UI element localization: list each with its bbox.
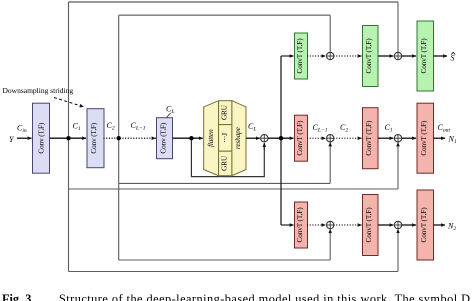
adder bot2 bbox=[394, 221, 401, 228]
conv block E2 bbox=[87, 109, 104, 168]
node after adder bbox=[279, 136, 283, 140]
adder bot1 bbox=[327, 221, 334, 228]
wire mid adder2 to P3 bbox=[402, 137, 416, 139]
svg-text:S: S bbox=[451, 54, 455, 63]
svg-text:ConvT (T,F): ConvT (T,F) bbox=[420, 120, 428, 156]
convT block G1 bbox=[295, 33, 308, 79]
convT block B1 bbox=[295, 202, 308, 248]
wire skip C1 vertical bbox=[68, 2, 70, 272]
wire GRU residual arrow bbox=[263, 143, 265, 150]
wire bot adder1 to B2 dotted bbox=[334, 224, 362, 226]
wire skip C1 top horizontal bbox=[69, 1, 399, 3]
GRU block cell dots bbox=[219, 125, 232, 152]
conv block E1 bbox=[33, 103, 50, 173]
adder top2 bbox=[394, 52, 401, 59]
convT block P1 bbox=[295, 115, 308, 161]
wire into bottom decoder block1 bbox=[281, 224, 294, 226]
wire input Y arrow bbox=[17, 137, 32, 139]
svg-text:Downsampling striding: Downsampling striding bbox=[3, 86, 74, 95]
svg-text:ConvT (T,F): ConvT (T,F) bbox=[296, 207, 304, 243]
tick from CL label to E3 bbox=[167, 113, 171, 118]
conv block E3 bbox=[157, 118, 173, 159]
wire skip C2 top horizontal bbox=[119, 14, 331, 16]
adder top1 bbox=[327, 52, 334, 59]
wire skip C1 bottom horizontal bbox=[69, 271, 399, 273]
svg-text:reshape: reshape bbox=[234, 126, 242, 149]
svg-text:ConvT (T,F): ConvT (T,F) bbox=[365, 207, 373, 243]
svg-text:ConvT (T,F): ConvT (T,F) bbox=[296, 120, 304, 156]
node C1 bbox=[66, 136, 70, 140]
wire skip C1 to top adder bbox=[397, 2, 399, 52]
wire mid adder1 to P2 dotted bbox=[334, 137, 362, 139]
wire skip C2 to top adder bbox=[329, 15, 331, 52]
svg-text:ConvT (T,F): ConvT (T,F) bbox=[296, 38, 304, 74]
svg-text:ConvT (T,F): ConvT (T,F) bbox=[365, 38, 373, 74]
wire skip C2 mid horizontal bbox=[119, 182, 331, 184]
wire P2 to mid adder2 bbox=[378, 137, 393, 139]
wire skip C1 bottom riser bbox=[397, 229, 399, 271]
svg-text:GRU: GRU bbox=[221, 104, 229, 120]
wire GRU to adder bbox=[246, 137, 260, 139]
GRU block reshape trapezoid bbox=[232, 101, 246, 176]
GRU block flatten trapezoid bbox=[204, 101, 219, 176]
wire branch vertical after GRU adder bbox=[280, 56, 282, 225]
svg-text:Conv (T,F): Conv (T,F) bbox=[38, 122, 46, 154]
adder after GRU bbox=[261, 135, 268, 142]
svg-text:Structure of the deep-learning: Structure of the deep-learning-based mod… bbox=[59, 292, 470, 301]
convT block B2 bbox=[363, 195, 379, 256]
wire G1 to top adder1 dotted bbox=[308, 55, 326, 57]
wire output N2 bbox=[434, 224, 446, 226]
svg-text:Conv (T,F): Conv (T,F) bbox=[90, 122, 98, 154]
convT block P3 bbox=[417, 103, 434, 173]
svg-text:ConvT (T,F): ConvT (T,F) bbox=[365, 120, 373, 156]
wire bot adder2 to B3 bbox=[402, 224, 416, 226]
wire skip C1 mid riser bbox=[397, 143, 399, 190]
wire output S bbox=[434, 55, 448, 57]
wire G2 to top adder2 bbox=[378, 55, 393, 57]
wire skip C1 mid horizontal bbox=[69, 188, 399, 190]
wire B1 to bot adder1 dotted bbox=[308, 224, 326, 226]
adder mid2 bbox=[394, 135, 401, 142]
adder mid1 bbox=[327, 135, 334, 142]
convT block P2 bbox=[363, 108, 379, 169]
svg-text:⋯J: ⋯J bbox=[221, 133, 229, 143]
node C2 bbox=[117, 136, 121, 140]
svg-text:flatten: flatten bbox=[207, 129, 215, 147]
wire E3 to GRU bbox=[173, 137, 203, 139]
wire into top decoder block1 bbox=[281, 55, 294, 57]
wire B2 to bot adder2 bbox=[378, 224, 393, 226]
wire top adder1 to G2 dotted bbox=[334, 55, 362, 57]
wire GRU residual bbox=[191, 138, 264, 176]
svg-text:Conv (T,F): Conv (T,F) bbox=[160, 122, 168, 154]
wire E2 to E3 dotted bbox=[104, 137, 156, 139]
node CL bbox=[189, 136, 193, 140]
wire adder to P1 bbox=[268, 137, 294, 139]
GRU block cell GRU bottom bbox=[219, 151, 232, 176]
convT block B3 bbox=[417, 190, 434, 260]
wire E1 to E2 bbox=[50, 137, 87, 139]
wire skip C2 mid riser bbox=[329, 143, 331, 184]
svg-text:GRU: GRU bbox=[221, 155, 229, 171]
convT block G3 bbox=[417, 21, 434, 91]
convT block G2 bbox=[363, 26, 379, 87]
dashed pointer arrow bbox=[54, 98, 84, 107]
GRU block cell GRU top bbox=[219, 101, 232, 125]
wire skip C2 bottom riser bbox=[329, 229, 331, 260]
wire skip C2 bottom horizontal bbox=[119, 259, 331, 261]
wire top adder2 to G3 bbox=[402, 55, 416, 57]
svg-text:ConvT (T,F): ConvT (T,F) bbox=[420, 38, 428, 74]
wire skip C2 vertical bbox=[118, 15, 120, 260]
wire output N1 bbox=[434, 137, 446, 139]
wire P1 to mid adder1 dotted bbox=[308, 137, 326, 139]
svg-text:Fig. 3.: Fig. 3. bbox=[2, 292, 34, 301]
svg-text:ConvT (T,F): ConvT (T,F) bbox=[420, 207, 428, 243]
